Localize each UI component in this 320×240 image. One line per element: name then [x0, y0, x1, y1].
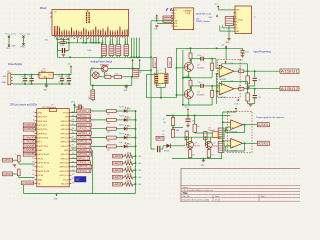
- capacitor C4: [68, 75, 70, 78]
- label right of U4: [77, 132, 91, 136]
- svg-text:10u: 10u: [65, 76, 68, 78]
- svg-text:Date:: Date:: [215, 195, 220, 198]
- svg-text:GND: GND: [54, 199, 59, 201]
- svg-text:a: a: [15, 153, 16, 155]
- svg-text:LED4: LED4: [113, 182, 122, 186]
- wire cap to right resistor: [204, 58, 213, 60]
- hierarchical label blue box: [75, 177, 87, 183]
- wire switch loop left and bottom: [90, 69, 92, 86]
- wire regulator gnd: [45, 78, 47, 84]
- dashed group box antenna: [228, 111, 253, 152]
- wire VCC to rail: [187, 111, 189, 116]
- wire opamp3 output to label: [243, 124, 258, 126]
- svg-text:13: 13: [32, 161, 34, 163]
- svg-text:GPIO2_2: GPIO2_2: [78, 131, 91, 135]
- wire resistor to LED D3: [116, 128, 124, 130]
- wire relay to right artery: [139, 69, 151, 71]
- no-connect flag at TVCC_2 bottom: [8, 45, 10, 47]
- ground left of U4: [13, 164, 17, 166]
- svg-text:GND: GND: [20, 47, 25, 49]
- IC U4 pin row 12: [35, 157, 37, 159]
- capacitor C-rail: [242, 48, 244, 50]
- wire resistor to LED D2: [116, 119, 124, 121]
- svg-text:GPIO.24: GPIO.24: [61, 158, 70, 160]
- LED D6 zigzag: [125, 154, 133, 158]
- wires RN2 to bottom rail: [109, 56, 111, 58]
- svg-text:DIP9 P0.5: DIP9 P0.5: [38, 133, 48, 135]
- resistor R-o1b vertical: [247, 71, 249, 76]
- wire +5V rail: [176, 47, 242, 49]
- svg-text:DIP12 P0.2: DIP12 P0.2: [38, 146, 49, 148]
- capacitor C-1: [200, 57, 201, 61]
- transistor Q4: [205, 141, 212, 148]
- wire mosfet gate drop: [104, 72, 106, 75]
- svg-text:mbed: mbed: [238, 20, 243, 22]
- wire collector of Q-2 to cap: [190, 86, 192, 90]
- wire opamp2 plus input: [217, 90, 220, 92]
- wire vcc drop to opamps: [225, 48, 227, 59]
- svg-text:A2SIG1: A2SIG1: [258, 123, 269, 127]
- svg-text:D?: D?: [129, 126, 131, 128]
- wire C-rail to gnd: [242, 53, 244, 55]
- svg-text:Title:: Title:: [183, 192, 189, 195]
- resistor R-led4: [107, 136, 117, 139]
- svg-text:+: +: [160, 69, 161, 71]
- svg-text:TRAFO: TRAFO: [155, 84, 162, 87]
- svg-text:Analog Power Switch: Analog Power Switch: [91, 61, 113, 64]
- left global labels of U4: [23, 123, 35, 127]
- IC U4 pin row 6: [35, 132, 37, 134]
- wire opamp2 output: [234, 88, 239, 90]
- resistor R-d1: [171, 118, 174, 126]
- wire resistor to LED D4: [116, 137, 124, 139]
- wire label to resistor: [122, 162, 124, 164]
- ground flag below opamps: [237, 99, 239, 101]
- global label LED row 5: [77, 144, 91, 148]
- wire mbed pin drop: [85, 38, 87, 43]
- wire LED return rail vertical: [135, 111, 137, 193]
- svg-text:32: 32: [72, 145, 74, 147]
- svg-text:TCA0372: TCA0372: [208, 129, 215, 132]
- ground flag below mbed: [90, 41, 92, 43]
- bottom-left label box: [22, 181, 34, 185]
- label right of U4: [77, 115, 91, 119]
- IC U4 pin row 8: [35, 141, 37, 143]
- resistor R-led1: [107, 110, 117, 113]
- ground below crystal caps: [62, 54, 66, 56]
- svg-text:23: 23: [72, 182, 74, 184]
- transistor Q-1: [184, 62, 193, 71]
- global label LED row 1: [77, 109, 91, 113]
- svg-text:P1.31: P1.31: [38, 167, 44, 169]
- IC U4 pin row 5: [35, 128, 37, 130]
- LED D4: [124, 136, 127, 140]
- svg-text:GPIO.20: GPIO.20: [61, 137, 70, 139]
- crystal X1: [60, 42, 67, 44]
- svg-text:DIP5 P0.9: DIP5 P0.9: [38, 117, 48, 119]
- wire artery to R-1: [190, 48, 192, 53]
- svg-text:C?: C?: [28, 82, 30, 84]
- svg-text:Fault 1: Fault 1: [119, 106, 124, 109]
- svg-text:Q?: Q?: [195, 142, 197, 144]
- svg-text:GPIO2_2: GPIO2_2: [78, 160, 91, 164]
- wire rail corner to R-d1: [166, 115, 173, 117]
- svg-text:34: 34: [72, 136, 74, 138]
- svg-text:XTAL: XTAL: [60, 44, 65, 47]
- svg-text:100n: 100n: [197, 55, 201, 57]
- wire mbed pins to gnd flag: [90, 38, 92, 41]
- svg-text:D?: D?: [129, 135, 131, 137]
- wire U2 gnd: [157, 22, 174, 24]
- wire artery to R-2: [183, 76, 191, 78]
- wire horizontal net below mbed: [57, 42, 59, 44]
- ground flag bottom: [56, 193, 58, 195]
- wire VCC to U2: [156, 17, 158, 20]
- no-connect flag at TVCC_1 top: [22, 36, 24, 38]
- wire bottom rail of Q-2 stage: [183, 104, 212, 106]
- svg-text:GPIO0_2: GPIO0_2: [78, 127, 91, 131]
- wire J1 to regulator: [13, 74, 39, 76]
- IC U2 body: [173, 8, 193, 30]
- label right of U4: [77, 123, 91, 127]
- wire LED D2 to rail: [127, 119, 136, 121]
- connector CN-a body: [218, 128, 224, 139]
- svg-text:+12V: +12V: [2, 76, 7, 78]
- battery BT1 body: [91, 90, 95, 100]
- wires mbed pins to RN4: [124, 38, 126, 45]
- resistor R-o2 horizontal: [239, 87, 244, 90]
- svg-text:T?: T?: [157, 71, 159, 73]
- svg-text:-: -: [232, 121, 233, 124]
- resistor R-led3: [107, 127, 117, 130]
- svg-text:CONSIG: CONSIG: [24, 127, 35, 131]
- no-connect flag at TVCC_1 bottom: [22, 43, 24, 45]
- svg-text:P0.26: P0.26: [38, 158, 44, 160]
- capacitor C-o1: [254, 71, 256, 77]
- wire zigzag to rail: [133, 169, 136, 171]
- svg-text:Id: 1/1: Id: 1/1: [215, 200, 220, 202]
- wire label to resistor R-led4: [91, 137, 107, 139]
- label right of U4: [77, 165, 92, 169]
- svg-text:P1.22: P1.22: [63, 179, 69, 181]
- svg-text:BT?: BT?: [89, 96, 91, 99]
- wire left artery vertical: [150, 21, 152, 71]
- wires mbed pins to RN2: [109, 38, 111, 45]
- svg-text:RS232_Socket: RS232_Socket: [196, 20, 210, 23]
- IC U4 pin row 2: [35, 116, 37, 118]
- label right of U4: [77, 161, 91, 165]
- power VCC arrow: [187, 108, 189, 111]
- wire mbed pin drop: [83, 38, 85, 43]
- svg-text:GND: GND: [43, 89, 48, 91]
- svg-text:A2SIG2: A2SIG2: [258, 142, 269, 146]
- svg-text:D?: D?: [129, 108, 131, 110]
- svg-text:15: 15: [32, 170, 34, 172]
- LED D10 zigzag: [125, 182, 133, 186]
- wire label to resistor R-led5: [91, 145, 107, 147]
- resistor R-led2: [107, 118, 117, 121]
- svg-text:P0.30: P0.30: [38, 175, 44, 177]
- ground below U2 left: [155, 25, 159, 27]
- module U1 left pin stubs: [50, 12, 52, 14]
- resistor network RN4: [124, 45, 129, 56]
- power +5V arrow above power switch: [132, 59, 134, 62]
- svg-text:24: 24: [72, 178, 74, 180]
- op-amp U6B: [231, 139, 243, 149]
- svg-text:PowerSupply: PowerSupply: [8, 63, 23, 66]
- ferrite bead block FB1: [163, 16, 172, 22]
- svg-text:-: -: [232, 140, 233, 143]
- svg-text:GPIO.19: GPIO.19: [61, 133, 70, 135]
- wire transformer loop right riser: [175, 48, 177, 97]
- power VCC above opamp1: [225, 61, 227, 64]
- wire LED D3 to rail: [127, 128, 136, 130]
- svg-text:1k5: 1k5: [107, 141, 110, 143]
- resistor R-1b vertical right: [211, 63, 214, 70]
- svg-text:DIP10 P0.4: DIP10 P0.4: [38, 137, 49, 139]
- wire battery top: [92, 85, 94, 90]
- svg-text:1N4148: 1N4148: [164, 150, 170, 152]
- svg-text:VBAT: VBAT: [157, 136, 164, 140]
- svg-text:GND: GND: [38, 112, 43, 114]
- svg-text:GND: GND: [38, 179, 43, 181]
- wire label to resistor: [122, 155, 124, 157]
- wire artery C vertical: [182, 50, 184, 105]
- capacitor C3: [61, 75, 63, 78]
- resistor R-d2: [171, 129, 174, 137]
- svg-text:4k7: 4k7: [239, 68, 242, 70]
- LED D2: [124, 118, 127, 122]
- svg-text:1k5: 1k5: [107, 132, 110, 134]
- svg-text:R?: R?: [162, 131, 164, 133]
- LED D1: [124, 109, 127, 113]
- svg-text:GPIO: GPIO: [3, 158, 12, 162]
- svg-text:Series: Series: [119, 132, 124, 135]
- svg-text:CONSIG: CONSIG: [24, 152, 35, 156]
- wire opamp1 output: [234, 70, 239, 72]
- global label zigzag row 3: [113, 168, 123, 172]
- svg-text:LED3: LED3: [113, 175, 122, 179]
- svg-text:LED0: LED0: [113, 154, 122, 158]
- svg-text:GND: GND: [38, 150, 43, 152]
- ground bottom driver: [202, 159, 204, 160]
- wire transformer loop bottom: [147, 97, 177, 99]
- svg-text:100n: 100n: [197, 82, 201, 84]
- wire gnd rail power supply: [12, 83, 14, 86]
- wire label to resistor R-led1: [91, 110, 107, 112]
- svg-text:Mbed: Mbed: [40, 6, 47, 10]
- svg-text:3V3: 3V3: [45, 39, 48, 41]
- svg-text:78L05: 78L05: [41, 71, 46, 73]
- wires RN1 to bottom rail: [102, 56, 104, 58]
- capacitor C-d2 series: [157, 146, 158, 152]
- svg-text:GND: GND: [2, 82, 7, 84]
- svg-text:GPIO2_2: GPIO2_2: [78, 165, 92, 169]
- global label ASIG1: [280, 69, 299, 73]
- svg-text:2k2: 2k2: [197, 126, 200, 128]
- op-amp U3B: [219, 83, 234, 95]
- module U1 bottom pin stubs and pin name texts: [54, 36, 56, 38]
- svg-text:CPU pin names and LEDs: CPU pin names and LEDs: [10, 105, 38, 107]
- wire Q1 collector branch to opamp1: [212, 58, 216, 60]
- usb shield block component: [225, 17, 233, 26]
- svg-text:GPIO2_2: GPIO2_2: [78, 152, 92, 156]
- wire R-mid top: [194, 116, 196, 125]
- svg-text:and: and: [196, 18, 199, 20]
- wire resistor to LED D1: [116, 110, 124, 112]
- IC U4 pin row 16: [35, 174, 37, 176]
- svg-text:BC547C: BC547C: [197, 95, 205, 97]
- resistor R-1a vertical: [189, 53, 192, 59]
- global label LED row 3: [77, 127, 91, 131]
- global label A2SIG2: [257, 141, 269, 145]
- svg-text:DIP6 P0.8: DIP6 P0.8: [38, 121, 48, 123]
- wire Q3 base resistor: [186, 137, 188, 143]
- IC U2 left pins: [171, 9, 173, 11]
- wire LED D1 to rail: [127, 110, 136, 112]
- IC U4 body: [37, 109, 69, 187]
- svg-text:D?: D?: [129, 144, 131, 146]
- wire zigzag to rail: [133, 162, 136, 164]
- speaker/sounder LS1 symbol: [93, 72, 100, 79]
- svg-text:DIP18 P0.29: DIP18 P0.29: [38, 171, 50, 173]
- svg-text:Size: A4: Size: A4: [183, 195, 190, 198]
- wire U4 bottom-left down: [22, 185, 24, 194]
- wire R-o1 to label: [244, 70, 280, 72]
- svg-text:Powersupply for the antenna: Powersupply for the antenna: [256, 116, 285, 119]
- svg-text:CON1: CON1: [155, 61, 157, 67]
- LED D9 zigzag: [125, 175, 133, 179]
- regulator pins: [37, 74, 39, 76]
- svg-text:A1SIG2: A1SIG2: [281, 87, 298, 91]
- connector J-USB left pins: [233, 9, 235, 11]
- svg-text:KiCad E.D.A. kicad 4.0.2-stab: KiCad E.D.A. kicad 4.0.2-stable: [183, 199, 209, 202]
- wire base feed Q-2: [176, 94, 184, 96]
- wire R-d2 bottom to line: [172, 136, 174, 138]
- svg-text:NoConE: NoConE: [61, 183, 69, 185]
- wire J3 down to transformer: [164, 68, 166, 73]
- wire resistor to LED D5: [116, 145, 124, 147]
- transistor Q-2: [184, 90, 193, 99]
- wires mbed pins to RN1: [102, 38, 104, 45]
- wire Q4 collector: [209, 137, 211, 142]
- power +BT arrow above relay: [139, 59, 141, 62]
- svg-text:a: a: [15, 167, 16, 169]
- svg-text:10k: 10k: [163, 122, 166, 124]
- far-left label and RC 2: [3, 172, 13, 176]
- IC U4 pin row 7: [35, 137, 37, 139]
- module U1 mbed body: [52, 10, 129, 36]
- svg-text:100n: 100n: [58, 76, 62, 78]
- wire TVCC_2 vertical: [8, 38, 10, 45]
- svg-text:Rev:: Rev:: [261, 196, 265, 198]
- svg-text:TVcc_2 (ok): TVcc_2 (ok): [5, 34, 16, 36]
- transistor Q-PMOS symbol: [101, 65, 108, 72]
- wire U2 to left artery: [151, 20, 157, 22]
- svg-text:DIP16 P1.30: DIP16 P1.30: [38, 163, 50, 165]
- wire base feed Q-1: [176, 67, 184, 69]
- svg-text:100k: 100k: [115, 74, 119, 76]
- global label zigzag row 2: [113, 161, 123, 165]
- svg-text:100u: 100u: [21, 76, 25, 78]
- wire R to base node: [190, 59, 192, 62]
- wire switch top net: [91, 68, 102, 70]
- capacitor C-u4 decoupling: [78, 104, 79, 109]
- svg-text:LM358N: LM358N: [219, 97, 226, 99]
- wire crystal to caps: [57, 43, 59, 51]
- svg-text:Fault 2: Fault 2: [119, 115, 124, 118]
- svg-text:C?: C?: [66, 82, 68, 84]
- svg-text:File: SmartShelfMonitor.sched.: File: SmartShelfMonitor.sched.sch: [183, 189, 213, 192]
- svg-text:GPIO1.18: GPIO1.18: [59, 163, 69, 165]
- svg-text:CON2: CON2: [170, 61, 172, 67]
- wire +5V into switch net: [132, 62, 134, 69]
- global label J2 vertical: [153, 58, 157, 68]
- IC U5 body small: [212, 132, 218, 138]
- label right of U4: [77, 152, 92, 156]
- IC U4 pin row 17: [35, 178, 37, 180]
- IC U4 pin row 15: [35, 170, 37, 172]
- svg-text:3: 3: [33, 120, 34, 122]
- wire emitter of Q-2 down: [188, 99, 190, 105]
- wire left cap branch: [151, 148, 155, 150]
- resistor R-e3 below Q3: [189, 148, 191, 149]
- LED D7 zigzag: [125, 161, 133, 165]
- svg-text:VIN: VIN: [65, 117, 69, 119]
- note blue arrows above U2: [167, 8, 169, 10]
- power +3V3 arrow right of U4 top: [73, 105, 75, 111]
- svg-text:10u: 10u: [258, 80, 261, 82]
- svg-text:DIP7 P0.7: DIP7 P0.7: [38, 125, 48, 127]
- wire bottom horizontal gnd net: [23, 192, 135, 194]
- resistor R-2b vertical right: [211, 90, 214, 97]
- svg-text:GPIO: GPIO: [3, 172, 12, 176]
- svg-text:10k: 10k: [105, 74, 108, 76]
- svg-text:GPIO2_2: GPIO2_2: [78, 156, 89, 160]
- dashed group box input processing: [218, 60, 241, 98]
- feedback wire opamp1: [247, 64, 249, 71]
- regulator IC1 78L05 body: [39, 72, 53, 78]
- wire bus below mbed left pins: [57, 38, 59, 58]
- capacitor C-o2: [254, 89, 256, 95]
- module U1 value text vertical: [86, 12, 87, 14]
- wire Q3 collector: [191, 137, 193, 142]
- svg-text:1k5: 1k5: [107, 149, 110, 151]
- wire conn-a right: [224, 130, 231, 132]
- wire zigzag to rail: [133, 183, 136, 185]
- op-amp U3A: [219, 65, 234, 77]
- IC U4 pin row 14: [35, 166, 37, 168]
- wire top rail antenna driver: [166, 115, 231, 117]
- wires to gnd under opamp1: [247, 84, 249, 86]
- svg-text:25: 25: [72, 174, 74, 176]
- svg-text:Q?: Q?: [213, 142, 215, 144]
- capacitor C-2: [200, 84, 201, 88]
- label right of U4: [77, 169, 91, 173]
- svg-text:IF+: IF+: [236, 21, 238, 23]
- svg-text:LED2: LED2: [113, 168, 122, 172]
- wire artery B top: [223, 111, 236, 113]
- svg-text:GPIO.16: GPIO.16: [61, 121, 70, 123]
- wire cap stub: [74, 106, 78, 108]
- svg-text:16: 16: [32, 174, 34, 176]
- svg-text:DIP8 P0.6: DIP8 P0.6: [38, 129, 48, 131]
- resistor network RN1: [101, 45, 106, 56]
- IC U4 pin row 9: [35, 145, 37, 147]
- svg-text:GPIO0_0: GPIO0_0: [78, 109, 91, 113]
- svg-text:C?: C?: [58, 82, 60, 84]
- LED D5: [124, 145, 127, 149]
